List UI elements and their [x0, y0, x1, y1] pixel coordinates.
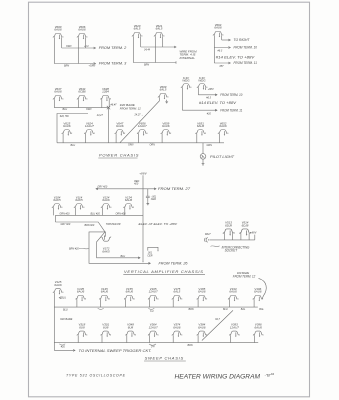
tube V114 [74, 195, 86, 209]
tube V196 [253, 287, 264, 301]
tube V625 [62, 121, 74, 135]
svg-text:6AL5: 6AL5 [134, 27, 141, 31]
svg-text:GRN #20: GRN #20 [60, 212, 71, 215]
wire interconnect bus [209, 235, 254, 240]
svg-text:6DJ8: 6DJ8 [242, 223, 249, 227]
svg-text:12B4: 12B4 [102, 90, 109, 94]
wire pins sweep top row [77, 299, 254, 307]
wire left branch [55, 215, 105, 232]
svg-text:+C4: +C4 [84, 45, 89, 48]
capacitor C601 [146, 189, 150, 202]
svg-text:6AU6: 6AU6 [116, 124, 124, 128]
svg-text:GRN: GRN [207, 144, 213, 147]
ground pilot [202, 162, 205, 165]
heater winding A [181, 76, 193, 90]
svg-text:6AK5: 6AK5 [53, 198, 61, 202]
svg-text:INTERNAL: INTERNAL [180, 56, 196, 60]
wire sweep left vertical [54, 293, 75, 351]
wire sub-chassis box [57, 114, 88, 143]
ground capacitor [146, 202, 149, 205]
wire main vertical elev [142, 175, 144, 261]
tube V656 [137, 121, 149, 135]
tube V301 [100, 323, 112, 337]
tube V620 [132, 24, 144, 38]
svg-text:+GRN: +GRN [89, 65, 96, 68]
tube V514 [239, 229, 252, 236]
wire group2 lower [133, 61, 176, 63]
svg-text:GRY #20: GRY #20 [61, 223, 71, 226]
svg-text:BLU: BLU [63, 108, 68, 111]
junction node row2 [108, 108, 110, 143]
wire group2 upper [141, 46, 176, 48]
svg-text:#14 ELEV. TO +88V: #14 ELEV. TO +88V [199, 101, 237, 105]
svg-text:6AU6: 6AU6 [126, 290, 134, 294]
svg-text:PILOT LIGHT: PILOT LIGHT [210, 155, 235, 159]
wire to inverted tube [105, 232, 107, 237]
tube V172 inverted [100, 235, 112, 253]
tube V638 [100, 87, 112, 101]
tube V155 [124, 287, 136, 301]
svg-text:#20: #20 [207, 112, 212, 115]
heater winding B [197, 76, 209, 90]
svg-text:#6,#7: #6,#7 [111, 103, 118, 106]
tube V318 [77, 323, 89, 337]
svg-text:6AL5: 6AL5 [173, 290, 180, 294]
svg-text:6AK5: 6AK5 [102, 249, 110, 253]
svg-text:6DJ8: 6DJ8 [225, 223, 232, 227]
svg-text:ORN #20: ORN #20 [116, 212, 127, 215]
svg-text:FROM TERM. 12: FROM TERM. 12 [233, 275, 256, 279]
wire sweep bus lower [54, 342, 258, 344]
svg-text:WDG: WDG [182, 79, 190, 83]
tube V125 [53, 280, 65, 294]
svg-text:ELEV. AT ELEV. TO +88V: ELEV. AT ELEV. TO +88V [139, 222, 179, 226]
svg-text:12AU7: 12AU7 [149, 326, 158, 330]
tube V364 [148, 323, 160, 337]
tube V606 [77, 25, 89, 39]
svg-text:6AU6: 6AU6 [219, 124, 227, 128]
wire outer loop [89, 232, 150, 263]
svg-text:WHT: WHT [205, 232, 211, 236]
tube V634 [77, 87, 89, 101]
svg-text:FROM TERM. 10: FROM TERM. 10 [234, 46, 258, 50]
tube V659 [161, 121, 173, 135]
pilot light [200, 154, 206, 160]
svg-text:TWISTED PR: TWISTED PR [106, 223, 121, 226]
tube V348 [125, 323, 137, 337]
wire to pilot light [202, 143, 204, 154]
svg-text:GRN: GRN [128, 143, 134, 146]
svg-text:6AU6: 6AU6 [54, 90, 62, 94]
wire pins row2 [54, 99, 109, 107]
svg-text:BLU: BLU [63, 309, 68, 312]
tube V185 [197, 287, 209, 301]
svg-text:ORN: ORN [66, 45, 72, 48]
wire pins windings [182, 88, 205, 110]
svg-text:ORN: ORN [86, 108, 92, 111]
svg-text:FROM TERM. 2: FROM TERM. 2 [99, 46, 127, 50]
svg-text:FROM TERM. 11: FROM TERM. 11 [220, 108, 242, 112]
svg-text:+88V: +88V [139, 172, 147, 176]
wire pins vert amp row [53, 208, 125, 216]
wire pilot to ground [202, 159, 204, 162]
tube V393 [229, 323, 241, 337]
tube V651 [195, 121, 207, 135]
wire to term 10 lower [198, 94, 217, 96]
svg-text:FROM TERM. 27: FROM TERM. 27 [158, 187, 190, 191]
wire pins V664 [214, 35, 221, 63]
ground V609 [165, 100, 168, 103]
wire to term 2 [62, 47, 96, 49]
svg-text:24,27: 24,27 [96, 114, 104, 117]
svg-text:12AU7: 12AU7 [85, 124, 94, 128]
svg-text:TO RIGHT: TO RIGHT [234, 38, 251, 42]
svg-text:BLU: BLU [223, 308, 228, 311]
capacitor stub CER [148, 247, 158, 250]
svg-text:6AU6: 6AU6 [254, 290, 262, 294]
svg-text:6AU6: 6AU6 [173, 326, 181, 330]
wire inner loop [97, 232, 140, 258]
tube V175 [172, 287, 184, 301]
tube V664 [213, 23, 225, 37]
svg-text:FROM TERM. 26: FROM TERM. 26 [159, 262, 188, 266]
tube V104 [52, 195, 64, 209]
svg-text:12AU7: 12AU7 [138, 124, 147, 128]
svg-text:6AU6: 6AU6 [198, 326, 206, 330]
wire to term 11 [214, 62, 230, 64]
tube V145 [99, 287, 111, 301]
svg-text:WDG: WDG [198, 79, 206, 83]
svg-text:6AU6: 6AU6 [63, 124, 71, 128]
wire pins sweep bottom row [78, 335, 254, 342]
wire to right [222, 39, 231, 41]
tube V134 [123, 195, 135, 209]
svg-text:6U8: 6U8 [103, 326, 109, 330]
wire pins interconnect [224, 234, 249, 240]
svg-text:6AU6: 6AU6 [229, 290, 237, 294]
svg-text:12AU7: 12AU7 [149, 290, 158, 294]
svg-text:GRY #20: GRY #20 [98, 186, 108, 189]
svg-text:FROM TERM. 12: FROM TERM. 12 [120, 107, 141, 111]
svg-text:BRN: BRN [189, 308, 194, 311]
svg-text:6AU6: 6AU6 [198, 290, 206, 294]
svg-text:6AU6: 6AU6 [54, 283, 62, 287]
svg-text:6AK5: 6AK5 [75, 198, 83, 202]
wire sweep bus upper [54, 306, 257, 308]
wire to term 10 [214, 47, 230, 49]
svg-text:SWEEP CHASIS: SWEEP CHASIS [145, 355, 184, 360]
wire pins V620 V621 [133, 36, 162, 62]
svg-text:+88V: +88V [208, 87, 214, 91]
wire label BLU s1 [59, 297, 61, 299]
svg-text:BAL: BAL [259, 308, 264, 311]
wire diagonal sweep [202, 310, 233, 340]
connector plug [204, 238, 207, 243]
svg-text:6AU6: 6AU6 [78, 28, 86, 32]
svg-text:HEATER WIRING DIAGRAM: HEATER WIRING DIAGRAM [175, 374, 261, 381]
junction twisted pair [104, 231, 105, 232]
svg-text:FROM TERM. 10: FROM TERM. 10 [220, 93, 242, 97]
svg-text:TYPE 532 OSCILLOSCOPE: TYPE 532 OSCILLOSCOPE [66, 373, 126, 377]
svg-text:#20: #20 [61, 345, 66, 348]
svg-text:6AU6: 6AU6 [54, 28, 62, 32]
tube V396 [253, 323, 264, 337]
svg-text:6AU6: 6AU6 [162, 124, 170, 128]
tube V637 [53, 87, 65, 101]
svg-text:6AU6: 6AU6 [77, 290, 85, 294]
wire heater bus row2 [54, 107, 108, 109]
tube V647 [115, 121, 127, 135]
svg-text:BAL: BAL [241, 308, 246, 311]
svg-text:ORN: ORN [150, 143, 156, 146]
svg-text:POWER CHASIS: POWER CHASIS [99, 152, 139, 157]
svg-text:FROM TERM. 3: FROM TERM. 3 [99, 62, 127, 66]
svg-text:#20, 5W: #20, 5W [60, 115, 70, 118]
svg-text:6AL5: 6AL5 [160, 88, 167, 92]
svg-text:#14 ELEV. TO +88V: #14 ELEV. TO +88V [216, 55, 256, 59]
svg-text:6AU6: 6AU6 [255, 326, 263, 330]
tube V165 [148, 287, 160, 301]
svg-text:BLU #20: BLU #20 [91, 212, 101, 215]
svg-text:+88V: +88V [250, 231, 256, 235]
svg-text:BRN #20: BRN #20 [69, 248, 79, 251]
tube V652 [218, 121, 230, 135]
svg-text:6AL5: 6AL5 [156, 27, 163, 31]
tube V374 [172, 323, 184, 337]
wire pins row3 [63, 134, 219, 143]
wire heater bus row3 [57, 142, 224, 144]
svg-text:SOCKET: SOCKET [225, 248, 239, 252]
svg-text:6AU6: 6AU6 [101, 290, 109, 294]
tube V193 [228, 287, 240, 301]
wire heater bus vert amp [55, 214, 143, 216]
tube V600 [53, 25, 65, 39]
svg-text:#57: #57 [220, 65, 225, 68]
svg-text:VERTICAL AMPLIFIER CHASSIS: VERTICAL AMPLIFIER CHASSIS [124, 269, 204, 274]
wire curve term 12 [259, 278, 267, 298]
tube V624 [84, 121, 96, 135]
svg-text:CER: CER [151, 198, 156, 201]
tube V384 [197, 323, 209, 337]
tube V609 [158, 85, 170, 99]
svg-text:12AU7: 12AU7 [230, 326, 239, 330]
wire pins V600 V606 [54, 37, 85, 63]
svg-text:6AU6: 6AU6 [102, 198, 110, 202]
tube V135 [75, 287, 87, 301]
svg-text:24,27 →: 24,27 → [134, 113, 144, 116]
svg-text:BLU: BLU [61, 297, 66, 300]
leader interconnecting socket [211, 245, 220, 248]
svg-text:#4,7: #4,7 [215, 318, 220, 321]
svg-text:BLU: BLU [121, 255, 126, 258]
svg-text:TO INTERNAL SWEEP TRIGGER CKT.: TO INTERNAL SWEEP TRIGGER CKT. [79, 349, 152, 353]
svg-text:CER: CER [147, 254, 152, 257]
svg-text:6AU6: 6AU6 [125, 198, 133, 202]
svg-text:6U8: 6U8 [79, 326, 85, 330]
tube V513 [223, 229, 236, 236]
svg-text:#20: #20 [134, 183, 139, 186]
svg-text:BRN: BRN [188, 344, 193, 347]
svg-text:#6.3: #6.3 [218, 50, 223, 53]
svg-text:BRN: BRN [144, 63, 149, 66]
svg-text:FROM TERM. 11: FROM TERM. 11 [234, 61, 258, 65]
svg-text:#20 BARE: #20 BARE [60, 317, 72, 321]
svg-text:6AU6: 6AU6 [214, 26, 222, 30]
wire to term 3 [54, 63, 95, 65]
wire term 27 horizontal [96, 188, 156, 190]
tube V621 [154, 24, 166, 38]
svg-text:34,44: 34,44 [144, 48, 151, 51]
svg-text:6CB6: 6CB6 [78, 90, 86, 94]
svg-text:BRN #20: BRN #20 [85, 224, 95, 227]
tube V124 [101, 195, 113, 209]
svg-text:6AU6: 6AU6 [197, 124, 205, 128]
svg-text:#6.3: #6.3 [206, 97, 211, 100]
wire to term 11 lower [182, 109, 217, 111]
svg-text:6U8: 6U8 [128, 326, 134, 330]
svg-text:BLU: BLU [71, 144, 76, 147]
svg-text:BRN: BRN [64, 65, 69, 68]
wire diagonal V609 to bus [120, 97, 160, 142]
